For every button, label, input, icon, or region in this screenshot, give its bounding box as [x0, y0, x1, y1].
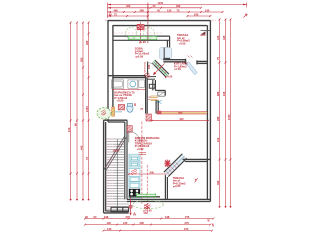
svg-text:16x17: 16x17 [113, 149, 121, 153]
living pillar [156, 100, 158, 113]
svg-text:160: 160 [205, 8, 210, 12]
hall lower red hatch box [127, 126, 132, 133]
svg-text:-0,05: -0,05 [174, 184, 181, 188]
svg-text:395: 395 [216, 180, 220, 185]
left vertical dim lines [70, 22, 90, 200]
svg-text:970: 970 [184, 227, 189, 231]
band bottom steps [147, 77, 156, 89]
svg-text:275: 275 [185, 215, 190, 219]
bottom dim row1 [84, 218, 214, 220]
KUPAONICA text block [114, 90, 135, 102]
stove black [129, 189, 140, 196]
svg-text:1253: 1253 [85, 106, 89, 112]
terrace strip dashes [114, 32, 136, 34]
SOBA bottom wall D [108, 76, 146, 78]
svg-text:198: 198 [104, 215, 109, 219]
svg-text:+0.00: +0.00 [136, 54, 143, 58]
boiler box [158, 92, 165, 96]
dim extension dark line x=148 [147, 4, 149, 43]
interior dim line y120.7 [150, 120, 209, 122]
door width dim [144, 62, 145, 73]
diamond window band (45deg) [164, 154, 187, 177]
top dim row4 [108, 15, 212, 17]
svg-text:240: 240 [216, 137, 220, 142]
svg-text:245: 245 [194, 12, 199, 16]
roof overhang dashed line [105, 19, 216, 21]
interior dim band y113 (orange) [157, 110, 207, 114]
svg-text:445: 445 [79, 145, 83, 150]
wall C horizontal with door gap [163, 59, 207, 65]
top wall [108, 21, 211, 26]
stair break diagonal [104, 136, 126, 171]
kitchen counter (cyan) [129, 154, 140, 198]
entry arrow (red) [153, 63, 164, 74]
tree canopy dashed arc [126, 28, 137, 39]
entry door opening + orange leaf [108, 107, 122, 119]
section line A [129, 198, 136, 217]
svg-text:135: 135 [123, 221, 128, 225]
svg-text:360: 360 [178, 110, 183, 114]
stair center rail [116, 139, 118, 213]
svg-text:+0.00: +0.00 [179, 41, 186, 45]
svg-text:130: 130 [107, 227, 112, 231]
bathroom small fixture [139, 80, 145, 87]
svg-text:285: 285 [216, 116, 220, 121]
wall E end red hatch box [146, 114, 152, 121]
top dim row3 [108, 11, 224, 13]
WC (blue) [127, 104, 133, 113]
couch (blue) [159, 47, 171, 59]
SOBA text block [135, 46, 150, 58]
left wall [108, 20, 113, 122]
top dim row2 [108, 7, 203, 9]
hall red hatch box [118, 105, 124, 110]
svg-text:+0.00: +0.00 [174, 67, 181, 71]
top right small arrow [244, 14, 248, 18]
svg-text:885: 885 [216, 91, 220, 96]
red bits near pillar [148, 97, 151, 100]
TERASA lower text block [173, 176, 186, 188]
bottom window green [136, 193, 156, 197]
svg-text:1150: 1150 [227, 114, 231, 120]
SOBA door leaf + arc [147, 62, 149, 76]
north-ish tiny mark [195, 178, 198, 182]
hall bottom wall F [104, 120, 128, 122]
svg-text:360: 360 [140, 8, 145, 12]
glass door leaf (blue) [186, 62, 197, 75]
window centerline ps-90 [140, 22, 142, 44]
small dim blob below text [139, 153, 147, 155]
TERASA upper text block [177, 33, 190, 45]
interior dim line y174 [128, 173, 168, 175]
radiator orange blob [150, 96, 157, 101]
stair bay outer wall [104, 120, 129, 213]
staircase treads [106, 139, 129, 209]
kitchen red hatch blob [131, 169, 137, 175]
svg-text:+0.00: +0.00 [117, 99, 124, 103]
right wall [207, 20, 210, 201]
diamond red starburst [164, 160, 170, 166]
stair red dashes [107, 139, 125, 167]
svg-text:240: 240 [150, 170, 155, 174]
svg-text:140: 140 [143, 211, 148, 215]
svg-text:+0.00: +0.00 [137, 147, 144, 151]
window W-A glazing [128, 36, 157, 40]
door jamb red hatch blob [144, 73, 150, 78]
interior wall A with lines [113, 36, 170, 40]
bathroom mini dim [112, 89, 145, 90]
svg-text:915: 915 [222, 91, 226, 96]
svg-text:390: 390 [176, 4, 181, 8]
svg-text:460: 460 [114, 8, 119, 12]
KOTLARNICA text block [174, 62, 188, 71]
svg-text:+0.00: +0.00 [166, 76, 173, 79]
svg-text:420: 420 [216, 35, 220, 40]
entry bush (green with red core) [97, 108, 111, 119]
svg-text:365: 365 [79, 57, 83, 62]
wall G vertical (stair/kitchen) [125, 120, 127, 199]
wall B vertical (SOBA/terrace) [167, 36, 169, 48]
top dim row1 [108, 3, 247, 21]
kitchen dim red vertical [141, 122, 143, 206]
door dim ticks [188, 56, 193, 58]
bottom bush dashed ellipse [133, 201, 164, 209]
terrace top wall right [183, 159, 211, 161]
right vertical dim lines [219, 19, 232, 208]
svg-text:275: 275 [126, 215, 131, 219]
bottom wall [127, 197, 210, 202]
terrace west wall [165, 175, 167, 199]
svg-text:120: 120 [67, 127, 71, 132]
bottom entry steps [111, 207, 129, 211]
band top connection wall [163, 57, 170, 59]
svg-text:180: 180 [147, 64, 151, 69]
bottom dim row3 [103, 230, 214, 232]
bottom red hatch blob [144, 204, 150, 210]
hall-living door arc [129, 131, 140, 142]
chimney red hatch block [137, 24, 144, 29]
svg-text:270: 270 [185, 221, 190, 225]
svg-text:198: 198 [165, 215, 170, 219]
entrance diagonal band [152, 60, 169, 77]
svg-text:415: 415 [179, 117, 184, 121]
svg-text:120: 120 [107, 221, 112, 225]
bathroom washbasin [128, 80, 138, 88]
bathroom tub [111, 80, 123, 88]
living west wall upper [153, 80, 166, 96]
centerline x147 lower [146, 165, 148, 212]
svg-text:460: 460 [126, 4, 131, 8]
svg-text:300: 300 [140, 221, 145, 225]
cyan X symbol [156, 100, 162, 103]
stair tread pink dashes [106, 139, 114, 209]
terrace corner sill [201, 30, 211, 32]
svg-text:ps-90: ps-90 [139, 40, 146, 44]
svg-text:120: 120 [167, 8, 172, 12]
wall E vertical (bath/hall) [146, 76, 148, 114]
DNEVNI text block [135, 136, 161, 151]
svg-text:285: 285 [85, 40, 89, 45]
bottom dim row2 [84, 224, 211, 226]
svg-text:425: 425 [222, 35, 226, 40]
svg-text:A: A [133, 212, 136, 217]
terrace wedge symbol [200, 31, 205, 35]
svg-text:1150: 1150 [158, 1, 164, 5]
